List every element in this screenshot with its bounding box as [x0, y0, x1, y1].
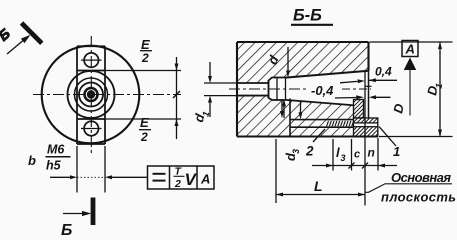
dimension b with M6/h5 [50, 146, 148, 193]
item 1: lower part [354, 118, 378, 137]
svg-text:M6: M6 [47, 143, 65, 157]
small arrow down at slot line [300, 102, 302, 113]
left view boss circles [68, 71, 115, 118]
svg-text:b: b [28, 153, 36, 168]
internal vertical edge [289, 99, 291, 137]
thread band of screw 2 [326, 120, 354, 127]
D arrow line right-pointing at basic plane [335, 97, 357, 100]
svg-text:A: A [405, 42, 415, 57]
screw hole bottom [81, 121, 102, 135]
section mark Б bottom [63, 198, 93, 226]
svg-text:Основная: Основная [391, 170, 451, 185]
svg-text:V: V [185, 170, 198, 189]
svg-text:Б: Б [61, 222, 72, 237]
slot and windows [77, 46, 105, 144]
svg-text:A: A [200, 172, 210, 187]
left view outer circle [42, 46, 140, 144]
svg-text:плоскость: плоскость [381, 190, 456, 205]
svg-text:L: L [314, 178, 323, 194]
screw hole top [81, 53, 102, 67]
svg-text:2: 2 [140, 130, 148, 144]
item 1: upper part [354, 100, 364, 119]
svg-text:3: 3 [291, 149, 301, 154]
svg-text:2: 2 [141, 51, 149, 65]
dimension E/2 top and bottom [105, 57, 181, 139]
dimension d [287, 47, 289, 71]
E/2 text bottom [139, 115, 151, 144]
dimension d1 [204, 62, 240, 117]
E/2 text top [140, 37, 152, 65]
svg-text:E: E [141, 37, 150, 52]
thread dashes [327, 121, 354, 126]
cone top edge [286, 71, 369, 78]
svg-text:c: c [354, 149, 360, 161]
cavity bottom edge [286, 100, 354, 105]
dimension L [276, 139, 365, 203]
basic plane line [364, 71, 366, 206]
block outline [237, 42, 378, 137]
section mark Б top-left [0, 23, 42, 54]
svg-text:-0,4: -0,4 [311, 83, 334, 98]
svg-text:h5: h5 [46, 159, 62, 173]
datum A [402, 41, 418, 57]
bore lines [237, 81, 269, 98]
section: top hatched body [237, 42, 369, 83]
svg-text:1: 1 [393, 144, 400, 159]
svg-text:n: n [368, 146, 375, 160]
slot lines [290, 119, 354, 121]
dimension D1 [370, 42, 453, 137]
dimension d3 [281, 99, 283, 111]
svg-text:0,4: 0,4 [375, 65, 392, 79]
svg-text:E: E [140, 115, 149, 130]
svg-text:Б-Б: Б-Б [293, 7, 322, 25]
pilot knob [269, 78, 286, 101]
centerlines left view [33, 36, 181, 153]
svg-text:3: 3 [341, 153, 346, 163]
svg-text:2: 2 [305, 144, 314, 159]
section: bottom hatched body [237, 96, 366, 137]
section centerline [229, 88, 309, 90]
tolerance frame [148, 166, 215, 189]
svg-text:l: l [336, 145, 340, 160]
chain dimensions l3 c n [312, 138, 397, 171]
svg-text:2: 2 [174, 178, 181, 190]
d3 arrow up [283, 100, 285, 119]
dimension D arrows [371, 96, 391, 98]
